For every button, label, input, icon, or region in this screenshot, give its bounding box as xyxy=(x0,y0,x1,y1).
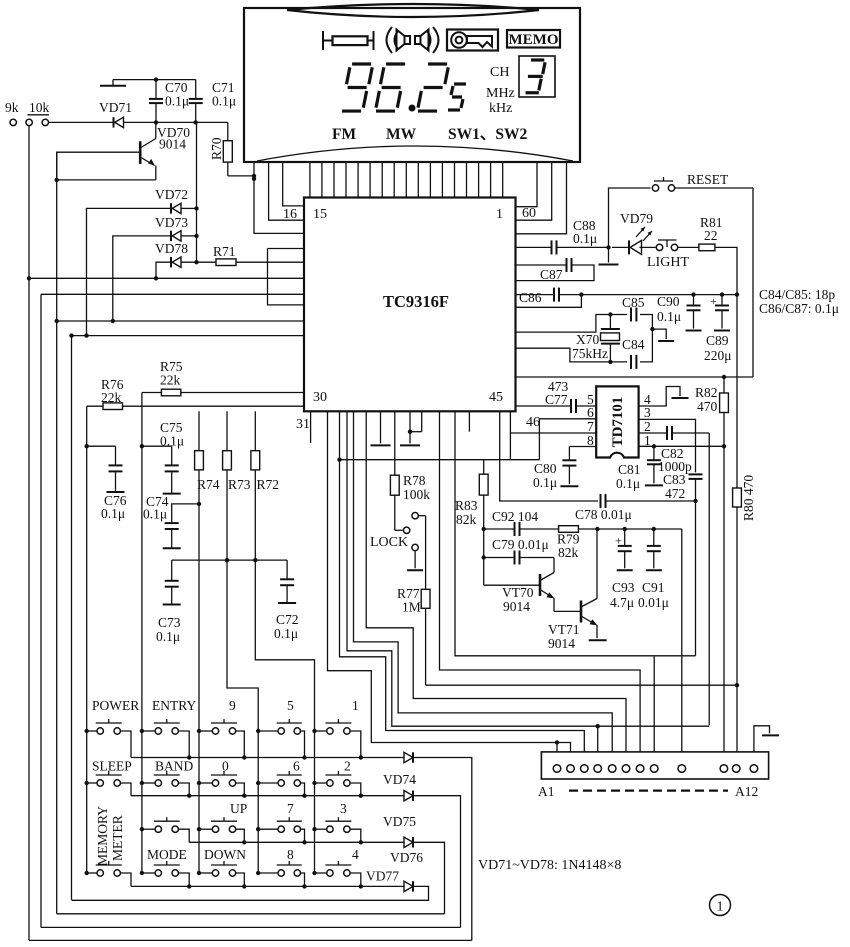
svg-text:C79 0.01μ: C79 0.01μ xyxy=(492,537,549,552)
wire R77 to R80 node xyxy=(426,684,737,686)
svg-text:0.1μ: 0.1μ xyxy=(156,629,180,644)
svg-text:FM: FM xyxy=(332,126,356,143)
label key 5 xyxy=(287,698,294,713)
svg-text:TD7101: TD7101 xyxy=(610,397,626,448)
LCD digit 9 xyxy=(342,64,372,111)
wire VD74 out xyxy=(413,758,472,941)
MW label xyxy=(386,126,417,143)
svg-text:VD71~VD78: 1N4148×8: VD71~VD78: 1N4148×8 xyxy=(478,858,621,873)
switch RESET xyxy=(652,172,729,191)
wire VD77 out loop xyxy=(72,886,429,900)
wire bus 10k column xyxy=(28,126,30,941)
diode VD76 xyxy=(390,837,423,865)
label key 4 xyxy=(352,847,359,862)
wire net A6 xyxy=(366,411,626,765)
wire VD74 loop to pin21 bus xyxy=(29,939,472,941)
note C84/C85 18p xyxy=(759,287,835,302)
pushbutton 9 xyxy=(197,719,247,760)
svg-text:9014: 9014 xyxy=(548,636,575,651)
note C86/C87 0.1u xyxy=(759,301,839,316)
pushbutton 4 xyxy=(312,861,363,889)
svg-text:C92 104: C92 104 xyxy=(492,509,538,524)
svg-text:0.1μ: 0.1μ xyxy=(573,231,597,246)
IC TD7101 body xyxy=(596,386,638,457)
svg-text:9014: 9014 xyxy=(503,599,530,614)
capacitor C72 xyxy=(274,560,299,641)
wire keypad row2 bus xyxy=(131,795,404,797)
svg-text:VD72: VD72 xyxy=(155,187,188,202)
terminal 9k xyxy=(5,100,19,126)
wire R83 to VT70 base xyxy=(484,584,540,586)
svg-text:7: 7 xyxy=(287,801,294,816)
svg-text:22: 22 xyxy=(704,228,718,243)
svg-text:A1: A1 xyxy=(538,784,555,799)
svg-text:C91: C91 xyxy=(642,580,665,595)
resistor R73 xyxy=(223,411,259,874)
svg-text:C93: C93 xyxy=(612,580,635,595)
svg-text:1M: 1M xyxy=(402,600,421,615)
capacitor C70 xyxy=(149,80,189,123)
svg-text:C84/C85: 18p: C84/C85: 18p xyxy=(759,287,835,302)
svg-text:MW: MW xyxy=(386,126,417,143)
wire TD7101 pin6 from chip pin46 loop xyxy=(510,405,596,460)
capacitor C91 0.01u xyxy=(638,527,669,610)
wire C92 row drop to connector A9 xyxy=(681,529,683,765)
C84 label xyxy=(622,337,645,352)
capacitor C89 220u electrolytic xyxy=(704,294,732,363)
capacitor C74 xyxy=(143,494,201,548)
svg-text:VT71: VT71 xyxy=(548,622,580,637)
svg-text:5: 5 xyxy=(287,698,294,713)
label key 0 xyxy=(222,759,229,774)
LCD digit 2 xyxy=(418,64,448,111)
resistor R78 100k xyxy=(390,411,430,530)
capacitor C83 472 xyxy=(663,472,703,501)
svg-text:C86: C86 xyxy=(519,290,542,305)
wire C87 loop xyxy=(516,258,595,282)
wire keypad row4 bus xyxy=(131,885,404,887)
resistor R74 xyxy=(195,411,220,874)
figure number 1 in circle xyxy=(710,895,731,916)
wire display pin to chip pin59 xyxy=(516,162,552,220)
capacitor C93 4.7u electrolytic xyxy=(610,527,635,610)
resistor R79 82k xyxy=(557,526,682,560)
capacitor C73 xyxy=(156,560,181,644)
wire TD7101 pin7 xyxy=(510,419,596,434)
wire R75 branch down xyxy=(140,393,144,875)
transistor VT70 xyxy=(502,558,581,615)
TD7101 pin3 wire xyxy=(639,405,696,472)
wire chip pin45 to C78 row xyxy=(500,411,598,501)
wire VD73 feed xyxy=(111,236,171,323)
capacitor C77 473 xyxy=(545,379,596,413)
wire R76 branch down xyxy=(85,406,89,874)
wire display pin to chip pin17 xyxy=(269,162,304,220)
svg-text:220μ: 220μ xyxy=(704,348,732,363)
svg-text:472: 472 xyxy=(665,486,685,501)
wire VD70 emitter row xyxy=(55,178,156,182)
wire chip pin21 row xyxy=(27,276,304,280)
pin 60 label xyxy=(522,206,536,221)
pushbutton 3 xyxy=(312,817,363,844)
svg-text:A12: A12 xyxy=(735,784,758,799)
svg-text:9: 9 xyxy=(229,698,236,713)
svg-text:30: 30 xyxy=(313,390,327,405)
svg-text:BAND: BAND xyxy=(155,759,194,774)
svg-text:2: 2 xyxy=(344,759,351,774)
wire R81 to right rail xyxy=(715,247,737,294)
svg-text:LIGHT: LIGHT xyxy=(647,255,689,270)
svg-text:R72: R72 xyxy=(257,477,280,492)
svg-text:3: 3 xyxy=(340,801,347,816)
wire C73/C72 row xyxy=(172,558,287,562)
svg-text:0.1μ: 0.1μ xyxy=(657,309,681,324)
pushbutton MEMORY xyxy=(85,861,132,886)
pin 1 label xyxy=(496,207,503,222)
svg-text:100k: 100k xyxy=(403,487,430,502)
svg-text:C87: C87 xyxy=(540,267,563,282)
svg-text:C77: C77 xyxy=(545,392,568,407)
svg-text:UP: UP xyxy=(230,801,247,816)
svg-text:RESET: RESET xyxy=(687,172,729,187)
wire net A8 (to TD7101 pin3) xyxy=(455,411,696,765)
diode VD72 xyxy=(155,187,188,214)
label SLEEP xyxy=(92,759,132,774)
svg-text:4: 4 xyxy=(352,847,359,862)
C85 label xyxy=(622,295,645,310)
wire chip pin22 row xyxy=(41,293,304,295)
svg-text:0.01μ: 0.01μ xyxy=(638,595,669,610)
wire chip to C86 xyxy=(516,294,555,296)
speaker icon xyxy=(387,27,439,53)
label ENTRY xyxy=(152,698,197,713)
capacitor C92 104 xyxy=(492,509,559,536)
svg-text:C89: C89 xyxy=(706,333,729,348)
TC9316F label xyxy=(383,292,449,311)
wire display pin to chip pin58 xyxy=(516,162,567,234)
svg-text:LOCK: LOCK xyxy=(370,535,408,550)
pushbutton SLEEP xyxy=(85,771,132,796)
crystal X70 75kHz xyxy=(572,312,620,362)
svg-text:0.1μ: 0.1μ xyxy=(533,475,557,490)
svg-text:1: 1 xyxy=(717,900,724,915)
label MEMORY METER (rotated) xyxy=(95,806,125,866)
wire RESET to right drop xyxy=(675,187,753,189)
IC TC9316F body xyxy=(304,198,516,412)
wire C71 node down to diode chain xyxy=(196,122,198,262)
pushbutton 1 xyxy=(312,719,363,760)
pushbutton 6 xyxy=(256,771,307,798)
pin 45 label xyxy=(489,390,503,405)
SW1 SW2 label xyxy=(448,126,527,143)
capacitor C78 0.01u xyxy=(575,494,696,522)
LED VD79 xyxy=(612,211,653,254)
svg-text:75kHz: 75kHz xyxy=(572,346,608,361)
svg-text:VD77: VD77 xyxy=(366,869,399,884)
svg-text:VD73: VD73 xyxy=(155,215,188,230)
label key 3 xyxy=(340,801,347,816)
transistor VD70 xyxy=(140,122,190,179)
wire pin46 row to R83 xyxy=(337,458,539,462)
svg-text:ENTRY: ENTRY xyxy=(152,698,197,713)
svg-text:0.1μ: 0.1μ xyxy=(165,94,189,109)
pin 16 label xyxy=(283,207,297,222)
svg-text:X70: X70 xyxy=(576,332,599,347)
svg-text:7: 7 xyxy=(587,419,594,434)
svg-text:CH: CH xyxy=(490,65,509,80)
svg-text:31: 31 xyxy=(296,417,310,432)
label BAND xyxy=(155,759,194,774)
svg-text:1: 1 xyxy=(496,207,503,222)
TD7101 pin2 wire xyxy=(639,419,667,434)
svg-text:0.1μ: 0.1μ xyxy=(101,506,125,521)
top rail with ground xyxy=(100,77,196,85)
svg-text:C72: C72 xyxy=(276,612,299,627)
wire 10k to VD71 xyxy=(49,121,114,123)
svg-text:VT70: VT70 xyxy=(502,585,534,600)
pushbutton 0 xyxy=(197,771,247,798)
svg-text:C90: C90 xyxy=(657,294,680,309)
wire R83 to C92 row xyxy=(482,527,515,531)
label MODE xyxy=(147,847,187,862)
svg-text:C73: C73 xyxy=(158,615,181,630)
wire keypad row1 bus xyxy=(131,757,404,759)
resistor R75 22k xyxy=(142,359,304,396)
display pin wires (top row of TC9316F) xyxy=(310,162,503,198)
svg-text:VD78: VD78 xyxy=(155,241,188,256)
wire net A4 (to TD7101 pin2) xyxy=(347,411,709,765)
TD7101 pin1 row xyxy=(639,433,724,448)
wire VD70 base loop xyxy=(57,152,141,180)
svg-text:10k: 10k xyxy=(29,100,50,115)
wire VD76 loop to pin24 bus xyxy=(57,913,445,915)
switch LOCK xyxy=(370,513,426,551)
capacitor C76 xyxy=(87,446,127,521)
wire C82 drop to A4 row xyxy=(708,433,710,725)
svg-text:15: 15 xyxy=(313,207,327,222)
wire VD72 cathode to chain xyxy=(182,206,199,210)
svg-text:0.1μ: 0.1μ xyxy=(616,476,640,491)
capacitor C85 (loop top) xyxy=(631,308,652,362)
LCD digit 3 xyxy=(526,60,546,93)
svg-text:VD76: VD76 xyxy=(390,850,423,865)
label key 1 xyxy=(352,698,359,713)
svg-text:8: 8 xyxy=(587,433,594,448)
svg-text:R78: R78 xyxy=(403,473,426,488)
svg-text:C84: C84 xyxy=(622,337,645,352)
terminal 10k a xyxy=(26,119,32,125)
terminal 10k b xyxy=(28,100,50,126)
svg-text:46: 46 xyxy=(526,415,540,430)
wire TD7101 pin8 xyxy=(569,433,596,448)
svg-text:R74: R74 xyxy=(197,477,220,492)
resistor R76 22k xyxy=(87,377,304,410)
battery icon xyxy=(323,31,374,50)
kHz label xyxy=(489,101,512,116)
svg-text:9k: 9k xyxy=(5,100,19,115)
resistor R81 22 xyxy=(699,215,723,251)
label key 8 xyxy=(287,847,294,862)
capacitor C82 1000p xyxy=(658,426,709,474)
wire VD76 out xyxy=(413,842,445,914)
TD7101 pin5 label xyxy=(587,392,594,407)
label POWER xyxy=(92,698,139,713)
wire VD71 to C70 node xyxy=(124,120,158,124)
svg-text:0.1μ: 0.1μ xyxy=(274,626,298,641)
wire RESET drop xyxy=(752,188,754,377)
capacitor C79 0.01u xyxy=(492,537,554,565)
wire chip pin44 stub xyxy=(468,411,470,431)
svg-text:C78 0.01μ: C78 0.01μ xyxy=(575,507,632,522)
svg-text:SW1、SW2: SW1、SW2 xyxy=(448,126,527,143)
label key 6 xyxy=(293,759,300,774)
capacitor C90 0.1u xyxy=(657,294,702,331)
wire C86 jog to chip pin53 xyxy=(516,295,582,308)
svg-text:DOWN: DOWN xyxy=(204,847,246,862)
wire VD75 out xyxy=(413,796,461,928)
channel digit box xyxy=(519,56,555,97)
label UP xyxy=(230,801,247,816)
pushbutton UP xyxy=(197,817,247,844)
svg-text:VD71: VD71 xyxy=(99,100,132,115)
capacitor C80 0.1u xyxy=(533,447,578,491)
connector A1-A12 body xyxy=(541,752,768,779)
wire chip pin47 supply row xyxy=(516,375,754,379)
svg-text:3: 3 xyxy=(644,405,651,420)
wire net A5 xyxy=(354,411,613,765)
svg-text:4.7μ: 4.7μ xyxy=(610,595,634,610)
wire display pin to chip pin60 xyxy=(516,162,538,207)
node R79 out xyxy=(595,527,599,531)
label key 9 xyxy=(229,698,236,713)
svg-text:C83: C83 xyxy=(663,472,686,487)
ground at C88 node xyxy=(599,247,619,264)
pin 15 label xyxy=(313,207,327,222)
wire VD78 feed xyxy=(154,262,171,280)
wire chip to C88 xyxy=(516,246,552,248)
svg-text:MEMORY: MEMORY xyxy=(95,806,110,866)
ground at LOCK xyxy=(407,551,423,570)
wire bus pin24/VD70 column xyxy=(56,152,58,914)
svg-text:R83: R83 xyxy=(455,498,478,513)
pin 30 label xyxy=(313,390,327,405)
LCD dot xyxy=(409,105,416,112)
capacitor C86 0.1u xyxy=(519,288,559,305)
dashed A1-A12 line xyxy=(569,789,728,791)
label DOWN xyxy=(204,847,246,862)
svg-text:2: 2 xyxy=(644,419,651,434)
key icon xyxy=(447,30,498,51)
wire R70 to pin18 line xyxy=(228,174,256,178)
wire VD78 cathode junction xyxy=(182,260,217,264)
svg-text:SLEEP: SLEEP xyxy=(92,759,132,774)
note VD71-VD78 1N4148x8 xyxy=(478,858,621,873)
label A1 xyxy=(538,784,555,799)
svg-text:kHz: kHz xyxy=(489,101,512,116)
MEMO indicator xyxy=(507,30,560,48)
diode VD74 xyxy=(383,752,416,787)
pushbutton BAND xyxy=(140,771,192,798)
wire chip pin25 row xyxy=(69,333,304,337)
diode VD78 xyxy=(155,241,188,267)
svg-text:POWER: POWER xyxy=(92,698,139,713)
wire net A7 xyxy=(440,411,641,765)
LCD digit 6 xyxy=(376,64,405,111)
wire display pin to chip pin16 xyxy=(283,162,304,206)
wire right rail R81-R80 xyxy=(736,295,738,488)
svg-text:60: 60 xyxy=(522,206,536,221)
wire keypad row3 bus xyxy=(189,841,404,843)
wire net A1A2 (chip pin to connector) xyxy=(328,411,571,765)
resistor R83 82k xyxy=(455,460,488,586)
capacitor C84 (loop bottom) xyxy=(516,348,637,369)
wire VD73 cathode to chain xyxy=(182,234,199,238)
resistor R71 xyxy=(213,244,236,266)
wire chip pin52 to crystal loop xyxy=(516,315,628,333)
wire VD72 feed xyxy=(84,208,171,337)
wire C86 row to right rail xyxy=(559,292,739,296)
pin 31 label xyxy=(296,417,310,432)
pushbutton 5 xyxy=(256,719,307,760)
pushbutton row3 col2 xyxy=(140,817,190,842)
resistor R72 xyxy=(251,411,315,874)
svg-text:1: 1 xyxy=(352,698,359,713)
svg-text:6: 6 xyxy=(293,759,300,774)
svg-text:C80: C80 xyxy=(534,461,557,476)
capacitor C81 0.1u xyxy=(616,446,663,491)
pushbutton ENTRY xyxy=(140,719,192,760)
node C88/VD79/RESET xyxy=(606,245,610,249)
svg-text:8: 8 xyxy=(287,847,294,862)
svg-text:MHz: MHz xyxy=(486,86,515,101)
wire VD75 loop to pin22 bus xyxy=(41,926,461,928)
wire net A3 xyxy=(340,411,585,765)
diode VD75 xyxy=(383,791,416,830)
switch LIGHT xyxy=(647,240,689,270)
svg-text:C86/C87: 0.1μ: C86/C87: 0.1μ xyxy=(759,301,839,316)
pushbutton POWER xyxy=(85,719,132,758)
svg-text:MEMO: MEMO xyxy=(509,32,559,48)
wire C70-C71 rail to R70 xyxy=(156,120,228,124)
node C83 to C78 row xyxy=(693,499,697,503)
wire chip to C77 (473) xyxy=(516,405,572,407)
FM label xyxy=(332,126,356,143)
display module outline xyxy=(244,4,580,162)
wire RESET riser xyxy=(609,188,651,247)
wire bus pin22 column xyxy=(40,294,42,927)
svg-text:0: 0 xyxy=(222,759,229,774)
wire VD79 to LIGHT xyxy=(640,246,656,248)
svg-text:0.1μ: 0.1μ xyxy=(212,94,236,109)
svg-text:0.1μ: 0.1μ xyxy=(143,507,167,522)
svg-text:22k: 22k xyxy=(101,390,122,405)
resistor R77 1M xyxy=(397,516,430,686)
svg-text:22k: 22k xyxy=(160,373,181,388)
node R82 pin1 row xyxy=(722,444,726,448)
CH label xyxy=(490,65,509,80)
svg-text:0.1μ: 0.1μ xyxy=(160,434,184,449)
svg-text:TC9316F: TC9316F xyxy=(383,292,449,311)
ground at VT71 emitter xyxy=(589,639,607,641)
wire R71 to chip pin20 xyxy=(236,261,304,263)
pushbutton 7 xyxy=(256,817,307,844)
diode VD73 xyxy=(155,215,188,241)
wire ground at A12 xyxy=(754,726,779,752)
capacitor C71 xyxy=(189,80,236,123)
capacitor C88 0.1u xyxy=(552,218,609,254)
wire chip pin19 loop xyxy=(268,249,305,305)
label key 7 xyxy=(287,801,294,816)
